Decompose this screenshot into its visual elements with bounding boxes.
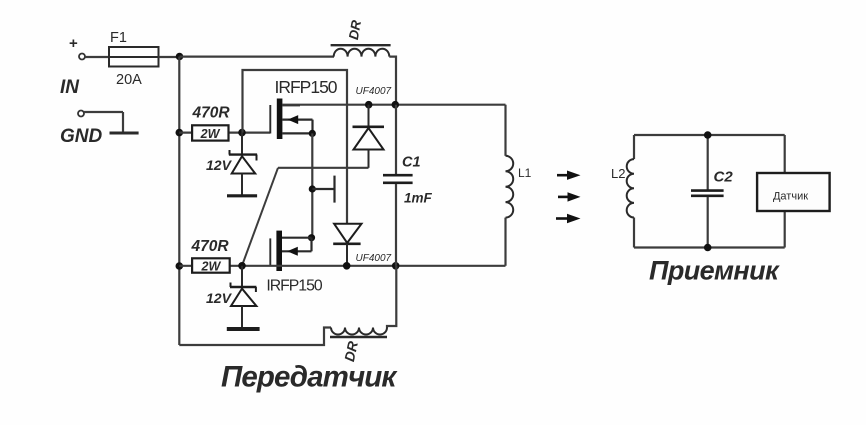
node midpoint stub junction	[309, 185, 316, 192]
receiver top wire	[634, 134, 785, 136]
radiated field arrow 1	[557, 171, 581, 180]
svg-text:L1: L1	[518, 166, 532, 180]
svg-text:C1: C1	[402, 155, 421, 171]
svg-text:Датчик: Датчик	[773, 190, 808, 202]
resistor R2 470R 2W	[190, 238, 229, 274]
svg-text:L2: L2	[611, 166, 625, 181]
node rail-C1 bottom junction	[392, 262, 400, 270]
wire fuse to junction	[159, 56, 181, 58]
radiated field arrow 2	[558, 192, 581, 201]
node C2 bottom junction	[704, 244, 712, 252]
svg-text:IRFP150: IRFP150	[274, 77, 337, 97]
transistor Q2 IRFP150 (lower MOSFET)	[266, 231, 323, 295]
wire bottom from bus to DR2	[179, 328, 331, 346]
svg-text:470R: 470R	[191, 105, 230, 122]
inductor DR1 (top choke)	[331, 19, 391, 57]
node Q1 source junction	[309, 130, 316, 137]
wire upper gate row	[179, 132, 270, 134]
capacitor C2	[691, 135, 733, 248]
receiver bottom wire	[634, 246, 785, 248]
node R1 right / gate1 junction	[238, 129, 246, 137]
ground bar for D1	[227, 194, 257, 197]
svg-text:F1: F1	[110, 30, 127, 46]
node bus-R2 junction	[176, 262, 184, 270]
node C2 top junction	[704, 131, 712, 139]
GND terminal	[78, 111, 123, 133]
midpoint stub with plate	[312, 176, 334, 203]
transistor Q1 IRFP150 (upper MOSFET)	[270, 77, 337, 139]
svg-text:2W: 2W	[200, 127, 221, 141]
diode D3 UF4007 (upper)	[353, 86, 392, 168]
svg-text:Передатчик: Передатчик	[221, 361, 398, 394]
node plus terminal	[69, 35, 85, 60]
wire receiver right branch bottom	[784, 211, 786, 248]
node rail-C1 junction	[392, 101, 400, 109]
ground bar for D2	[227, 327, 260, 331]
inductor L1 (transmitter coil)	[506, 105, 532, 266]
wire receiver right branch top	[784, 135, 786, 173]
node R2 right / gate2 junction	[238, 262, 246, 270]
svg-text:20A: 20A	[116, 72, 142, 88]
node rail-D4 junction	[343, 262, 351, 270]
zener D2 12V	[206, 266, 256, 328]
wire from + terminal to fuse	[85, 56, 110, 58]
inductor DR2 (bottom choke)	[330, 328, 387, 363]
resistor R1 470R 2W	[191, 105, 230, 142]
left V+ bus	[178, 57, 180, 345]
svg-text:+: +	[69, 35, 78, 52]
ground bar at input	[110, 132, 139, 135]
svg-text:1mF: 1mF	[404, 191, 433, 206]
svg-text:IN: IN	[60, 77, 80, 98]
zener D1 12V	[206, 133, 257, 195]
svg-text:470R: 470R	[190, 238, 229, 255]
diode D4 UF4007 (lower)	[333, 224, 391, 266]
node bus-R1 junction	[176, 129, 184, 137]
svg-text:C2: C2	[714, 169, 734, 186]
svg-text:GND: GND	[60, 126, 103, 147]
svg-text:12V: 12V	[206, 157, 233, 173]
svg-text:IRFP150: IRFP150	[266, 278, 323, 295]
node rail-D3 junction	[365, 101, 373, 109]
node Q2 drain junction	[308, 234, 315, 241]
lower rail / gate2 row	[179, 265, 505, 267]
gate feedback loop box outline (gate1 wire up and over)	[243, 70, 348, 224]
svg-text:UF4007: UF4007	[356, 86, 392, 97]
block Датчик (sensor)	[757, 173, 830, 211]
upper drain rail	[282, 104, 505, 106]
svg-text:12V: 12V	[206, 290, 233, 306]
wire DR1 to upper rail corner	[389, 57, 396, 105]
cross-coupling horizontal wire gate2 feedback	[278, 167, 369, 169]
node V+ junction at fuse output	[176, 53, 184, 61]
inductor L2 (receiver coil)	[611, 135, 634, 248]
wire top rail from junction to DR1	[180, 55, 335, 57]
svg-text:Приемник: Приемник	[649, 256, 780, 286]
svg-text:UF4007: UF4007	[356, 253, 392, 264]
midpoint wire Q1 source to Q2 drain	[311, 133, 313, 237]
fuse F1	[109, 30, 159, 88]
radiated field arrow 3	[556, 214, 581, 223]
wire DR2 to lower rail	[387, 266, 396, 328]
capacitor C1 1mF	[383, 105, 433, 266]
diagonal wire gate2 to feedback	[242, 168, 278, 266]
svg-text:2W: 2W	[201, 260, 222, 274]
